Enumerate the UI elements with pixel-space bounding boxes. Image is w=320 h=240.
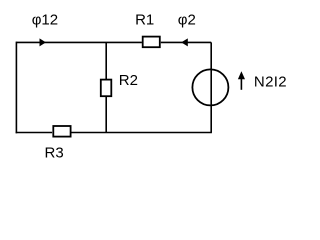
svg-text:N2I2: N2I2 xyxy=(254,73,287,90)
svg-text:φ2: φ2 xyxy=(178,11,196,28)
svg-text:R2: R2 xyxy=(119,72,138,89)
svg-text:R3: R3 xyxy=(45,144,64,161)
svg-text:R1: R1 xyxy=(135,11,154,28)
svg-text:φ12: φ12 xyxy=(32,11,58,28)
